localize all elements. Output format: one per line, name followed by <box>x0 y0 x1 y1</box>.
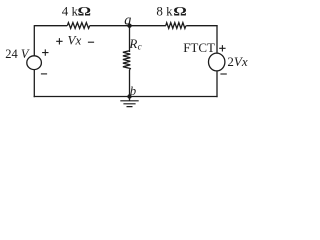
wire: left rail upper <box>33 25 35 56</box>
minus sign of dependent source <box>220 73 226 75</box>
resistor Rc (vertical zigzag) <box>123 51 130 70</box>
wire: bottom rail <box>34 96 218 98</box>
ground symbol bars <box>120 101 138 107</box>
plus sign of dependent source <box>219 45 225 51</box>
svg-text:FTCT: FTCT <box>183 40 215 55</box>
node b junction dot <box>127 94 131 98</box>
wire: middle branch lower <box>129 70 131 97</box>
wire: middle branch upper <box>129 26 131 52</box>
svg-text:a: a <box>124 13 131 29</box>
wire: top rail middle segment <box>90 25 166 27</box>
plus sign of 24 V source <box>42 49 48 55</box>
resistor 8 kOhm (zigzag) <box>166 23 186 29</box>
wire: top rail left segment <box>34 25 67 27</box>
plus sign of Vx polarity <box>56 38 62 44</box>
wire: top rail right segment <box>186 25 217 27</box>
minus sign of Vx polarity <box>88 41 94 43</box>
svg-text:Rc: Rc <box>128 36 141 52</box>
ground symbol stub <box>129 97 131 101</box>
svg-text:Ω: Ω <box>173 5 187 19</box>
svg-text:2Vx: 2Vx <box>227 54 247 69</box>
svg-text:Ω: Ω <box>78 5 92 19</box>
dependent voltage source 2Vx (circle) <box>209 53 225 71</box>
independent voltage source 24 V (circle) <box>27 56 42 70</box>
svg-text:Vx: Vx <box>68 33 82 48</box>
minus sign of 24 V source <box>41 73 47 75</box>
svg-text:b: b <box>130 84 136 98</box>
svg-text:8 k: 8 k <box>156 4 173 19</box>
svg-text:4 k: 4 k <box>62 3 79 18</box>
node a junction dot <box>127 24 131 28</box>
wire: left rail lower <box>33 69 35 97</box>
resistor 4 kOhm (zigzag) <box>67 23 89 29</box>
wire: right rail upper <box>216 25 218 53</box>
svg-text:24 V: 24 V <box>5 47 30 61</box>
wire: right rail lower <box>216 71 218 98</box>
